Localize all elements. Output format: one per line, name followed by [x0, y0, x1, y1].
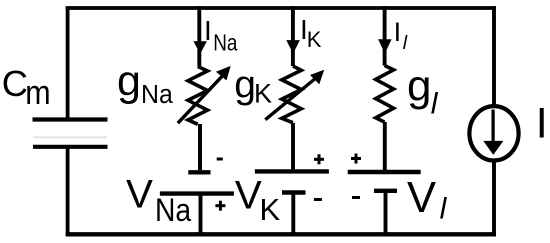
- svg-text:m: m: [25, 74, 50, 112]
- svg-text:I: I: [536, 99, 548, 147]
- label V_Na: [126, 171, 192, 228]
- wire right lower: [492, 162, 496, 236]
- label Cm: [2, 63, 51, 112]
- minus sign Na: [217, 158, 223, 161]
- wire l resistor to battery: [383, 122, 387, 170]
- svg-text:I: I: [394, 17, 402, 47]
- svg-text:Na: Na: [213, 29, 238, 55]
- variable resistor arrow g_K: [265, 70, 324, 120]
- battery V_K long plate (positive): [255, 169, 329, 173]
- wire Na battery to bottom: [199, 194, 203, 236]
- battery V_l short plate (negative): [374, 189, 397, 193]
- svg-text:g: g: [407, 62, 431, 111]
- battery V_l long plate (positive): [348, 170, 421, 174]
- wire l battery to bottom: [384, 191, 388, 236]
- capacitor Cm top plate: [33, 117, 108, 121]
- svg-text:K: K: [307, 27, 322, 52]
- svg-text:I: I: [204, 15, 212, 46]
- node K branch wire upper: [291, 6, 295, 66]
- label I_Na: [204, 15, 238, 55]
- wire K resistor to battery: [291, 123, 295, 170]
- capacitor Cm bottom plate: [33, 145, 108, 149]
- svg-text:l: l: [431, 88, 439, 121]
- svg-text:l: l: [440, 193, 448, 226]
- resistor g_Na zigzag: [188, 67, 208, 125]
- plus sign Na: [215, 201, 225, 211]
- current source I arrow: [483, 110, 503, 155]
- resistor g_K zigzag: [282, 66, 302, 123]
- label g_l: [407, 62, 439, 121]
- svg-text:K: K: [254, 79, 272, 109]
- wire bottom: [66, 232, 496, 236]
- plus sign l: [351, 154, 361, 164]
- label I_K: [300, 14, 322, 52]
- wire left upper: [66, 6, 70, 119]
- label g_K: [234, 64, 272, 109]
- svg-text:Na: Na: [155, 192, 192, 228]
- variable resistor arrow g_Na: [178, 66, 231, 123]
- svg-text:g: g: [117, 57, 141, 105]
- svg-text:l: l: [403, 32, 408, 54]
- current source I circle: [469, 106, 518, 160]
- minus sign K: [314, 198, 322, 201]
- label I_l: [394, 17, 408, 54]
- wire left lower: [66, 147, 70, 236]
- battery V_Na long plate (positive): [160, 191, 234, 195]
- wire right upper: [492, 6, 496, 105]
- node l branch wire upper: [383, 6, 387, 66]
- minus sign l: [352, 196, 360, 199]
- svg-text:V: V: [235, 173, 262, 218]
- node Na branch wire upper: [197, 6, 201, 67]
- svg-text:g: g: [234, 64, 256, 107]
- capacitor Cm mid faint line: [33, 136, 107, 138]
- wire Na resistor to battery: [198, 124, 202, 171]
- svg-text:C: C: [2, 63, 28, 104]
- svg-text:V: V: [126, 171, 153, 216]
- battery V_K short plate (negative): [282, 190, 306, 194]
- wire K battery to bottom: [291, 193, 295, 237]
- current arrow I_l head: [378, 39, 392, 53]
- current arrow I_Na head: [193, 41, 207, 54]
- resistor g_l zigzag: [376, 66, 394, 123]
- plus sign K: [314, 154, 324, 164]
- label V_l: [407, 174, 448, 226]
- label g_Na: [117, 57, 174, 109]
- svg-text:V: V: [407, 174, 436, 222]
- label V_K: [235, 173, 281, 227]
- current arrow I_K head: [286, 40, 300, 54]
- wire top: [66, 6, 496, 10]
- svg-text:Na: Na: [141, 81, 174, 109]
- svg-text:K: K: [260, 192, 281, 227]
- battery V_Na short plate (negative): [188, 170, 210, 174]
